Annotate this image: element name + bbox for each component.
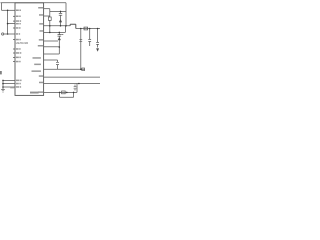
capacitor bbox=[74, 87, 77, 89]
left edge blob bbox=[0, 71, 2, 74]
wire bbox=[44, 53, 60, 55]
wire bbox=[2, 80, 4, 87]
pin stub bbox=[13, 20, 15, 22]
wire CS1 bbox=[44, 26, 66, 33]
wire VIN drop bbox=[65, 3, 67, 26]
wire bbox=[3, 83, 15, 85]
wire SW1 bbox=[44, 25, 71, 27]
pin stub bbox=[13, 56, 15, 58]
pin label text blobs bbox=[0, 7, 43, 93]
wire loop bbox=[60, 92, 74, 97]
wire SW2 bbox=[44, 91, 77, 93]
capacitor CHB2 bbox=[57, 60, 59, 69]
resistor R1 bbox=[7, 10, 9, 34]
wire HB2 bbox=[44, 59, 58, 61]
wire bbox=[44, 46, 60, 48]
wire HB1 bbox=[44, 8, 50, 10]
wire bbox=[50, 10, 66, 12]
wire bbox=[76, 84, 78, 93]
wire bbox=[2, 9, 16, 11]
wire bbox=[3, 79, 15, 81]
capacitor CHB1 bbox=[49, 9, 51, 33]
pin stub bbox=[13, 48, 15, 50]
wire bbox=[4, 33, 15, 35]
capacitor bbox=[79, 39, 82, 41]
resistor RS2 bbox=[62, 91, 66, 94]
junction dots bbox=[2, 10, 98, 94]
pin stub bbox=[13, 39, 15, 41]
wire bbox=[8, 23, 15, 25]
E-PAD text bbox=[30, 92, 39, 94]
node EN bbox=[2, 33, 4, 35]
small box near 82,69 bbox=[82, 68, 85, 71]
text near bottom-left outside bbox=[10, 87, 14, 88]
wire bbox=[1, 3, 3, 11]
capacitor bbox=[97, 29, 99, 48]
pin stub bbox=[13, 52, 15, 54]
wire VOUT1 bbox=[76, 28, 100, 30]
wire bbox=[1, 2, 67, 4]
inductor L1 bbox=[70, 24, 76, 28]
load arrow bbox=[96, 49, 98, 52]
wire VOUT2a bbox=[44, 76, 100, 78]
wire VOUT2b bbox=[44, 83, 100, 85]
op-amp U1 bbox=[15, 3, 44, 96]
svg-text:LM25119M: LM25119M bbox=[16, 42, 28, 45]
pin stub bbox=[13, 27, 15, 29]
transistor Q1 bbox=[59, 11, 62, 25]
wire CSG1 bbox=[44, 40, 58, 42]
pin stub bbox=[13, 61, 15, 63]
wire bbox=[44, 68, 85, 70]
wire bbox=[3, 86, 15, 88]
ground bbox=[2, 87, 4, 89]
wire bbox=[58, 47, 60, 54]
transistor Q2 bbox=[58, 32, 64, 47]
wire HO1 bbox=[44, 15, 50, 17]
capacitor COUT1 bbox=[89, 29, 91, 47]
wire bbox=[80, 29, 82, 70]
sense resistor RS1 bbox=[84, 27, 88, 30]
pin stub bbox=[13, 15, 15, 17]
